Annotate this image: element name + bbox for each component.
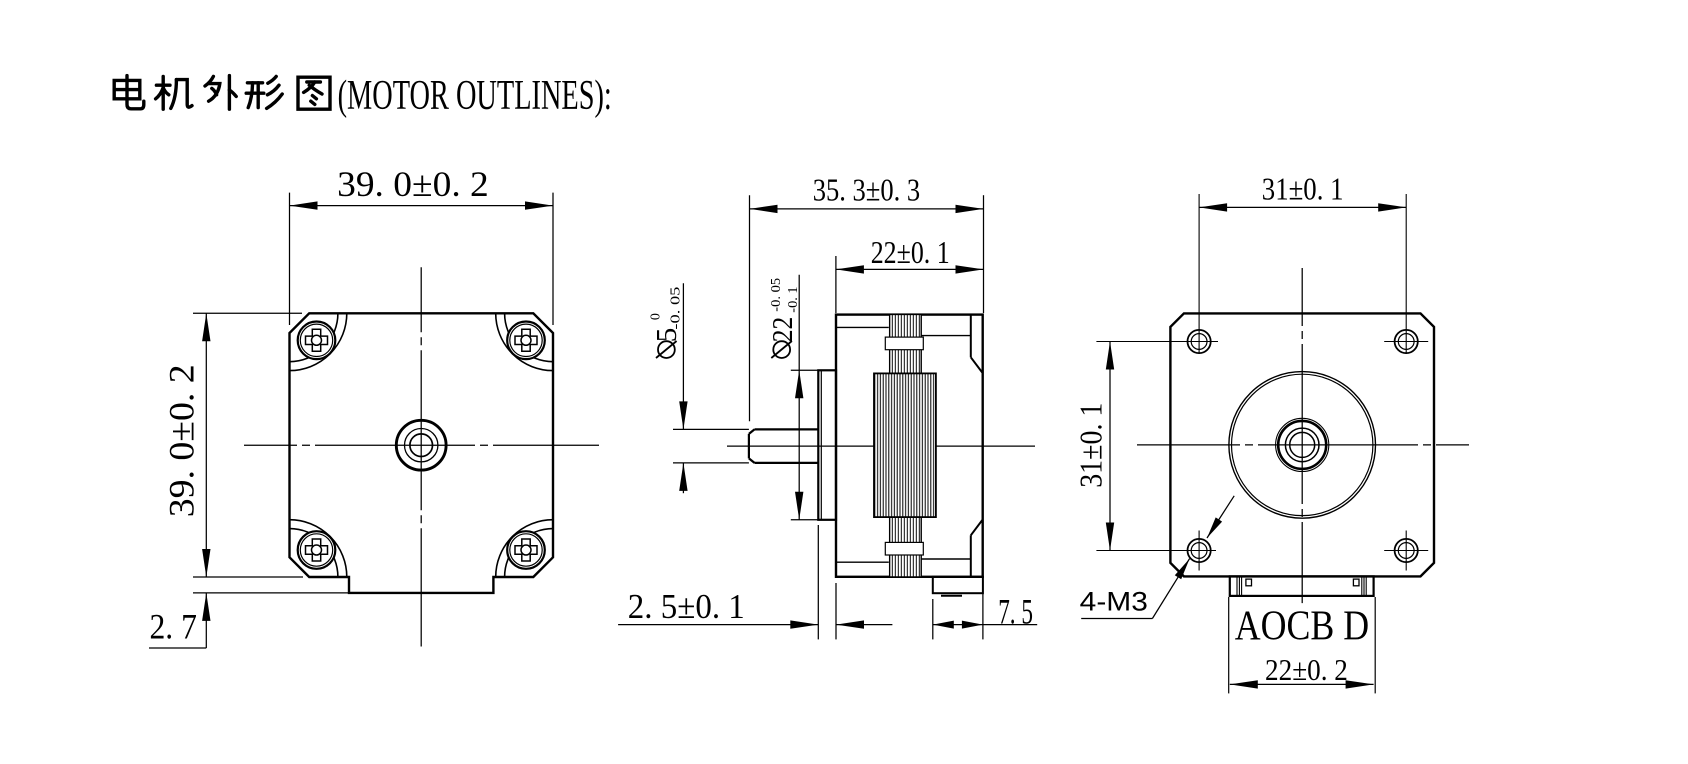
middle view shaft <box>755 428 819 430</box>
middle view bobbin flange bottom white band <box>885 542 923 555</box>
middle view bobbin flange top white band <box>885 337 923 350</box>
svg-text:7. 5: 7. 5 <box>998 592 1033 632</box>
dimension 39.0±0.2 vertical left <box>193 312 302 314</box>
svg-text:31±0. 1: 31±0. 1 <box>1073 403 1109 488</box>
svg-text:22±0. 1: 22±0. 1 <box>871 234 950 270</box>
right view connector latch tabs <box>1246 579 1252 586</box>
svg-text:31±0. 1: 31±0. 1 <box>1262 171 1344 207</box>
right view hole centerline ticks <box>1384 341 1428 343</box>
dimension 35.3±0.3 <box>749 195 751 421</box>
middle view motor body rectangle <box>836 315 983 577</box>
middle view winding hatch top column <box>890 315 922 374</box>
svg-text:-0. 05: -0. 05 <box>769 278 784 312</box>
left view centerline horizontal <box>244 444 599 446</box>
svg-text:0: 0 <box>649 313 664 320</box>
dimension 22±0.1 <box>835 256 837 313</box>
svg-text:4-M3: 4-M3 <box>1080 587 1148 617</box>
svg-text:35. 3±0. 3: 35. 3±0. 3 <box>813 172 921 208</box>
svg-text:39. 0±0. 2: 39. 0±0. 2 <box>337 164 489 204</box>
middle view centerline horizontal <box>727 445 1035 447</box>
title Chinese characters 电机外形图 <box>114 76 144 109</box>
dimension 31±0.1 vertical left <box>1096 341 1218 343</box>
dimension φ22 -0.05/-0.1 boss <box>791 369 819 371</box>
left view corner pads (fillet arcs) <box>290 313 338 361</box>
svg-text:22±0. 2: 22±0. 2 <box>1265 652 1348 687</box>
dimension 39.0±0.2 horizontal top <box>289 193 291 325</box>
left view motor body outline <box>290 313 554 593</box>
middle view pilot boss <box>818 370 836 520</box>
middle view connector housing <box>933 577 983 593</box>
svg-text:AOCB D: AOCB D <box>1235 604 1369 650</box>
middle view rear cover notch bottom <box>971 520 983 536</box>
middle view front plate inner lines <box>836 326 889 328</box>
svg-text:2. 7: 2. 7 <box>150 607 197 647</box>
dimension 2.5±0.1 boss thickness <box>817 525 819 639</box>
right view motor body outline <box>1170 313 1434 576</box>
left view center shaft circles <box>396 420 446 470</box>
right view shaft boss circles <box>1276 418 1329 471</box>
middle view winding hatch bottom column <box>890 517 922 577</box>
right view centerline vertical <box>1301 268 1303 603</box>
dimension 2.7 bottom step <box>193 592 349 594</box>
left view centerline vertical <box>420 267 422 646</box>
middle view rear cover notch top <box>970 315 972 358</box>
svg-text:2. 5±0. 1: 2. 5±0. 1 <box>628 587 745 626</box>
left view corner screws <box>298 322 336 360</box>
middle view rotor stack wide hatched block <box>874 373 936 517</box>
svg-text:(MOTOR OUTLINES):: (MOTOR OUTLINES): <box>338 73 612 119</box>
dimension 31±0.1 horizontal top <box>1198 194 1200 354</box>
right view centerline horizontal <box>1137 444 1469 446</box>
svg-text:-0. 1: -0. 1 <box>786 286 801 312</box>
right view pilot boss circle double <box>1229 372 1376 519</box>
right view connector housing <box>1230 576 1374 596</box>
right view mounting holes <box>1188 330 1211 353</box>
svg-text:39. 0±0. 2: 39. 0±0. 2 <box>162 364 202 517</box>
dimension φ5 0/-0.05 shaft <box>673 428 749 430</box>
dimension 7.5 connector <box>932 599 934 639</box>
middle view rear plate inner lines <box>836 561 889 563</box>
svg-text:-0. 05: -0. 05 <box>668 287 683 330</box>
svg-text:22: 22 <box>767 317 799 343</box>
dimension 22±0.2 bottom <box>1228 597 1230 693</box>
